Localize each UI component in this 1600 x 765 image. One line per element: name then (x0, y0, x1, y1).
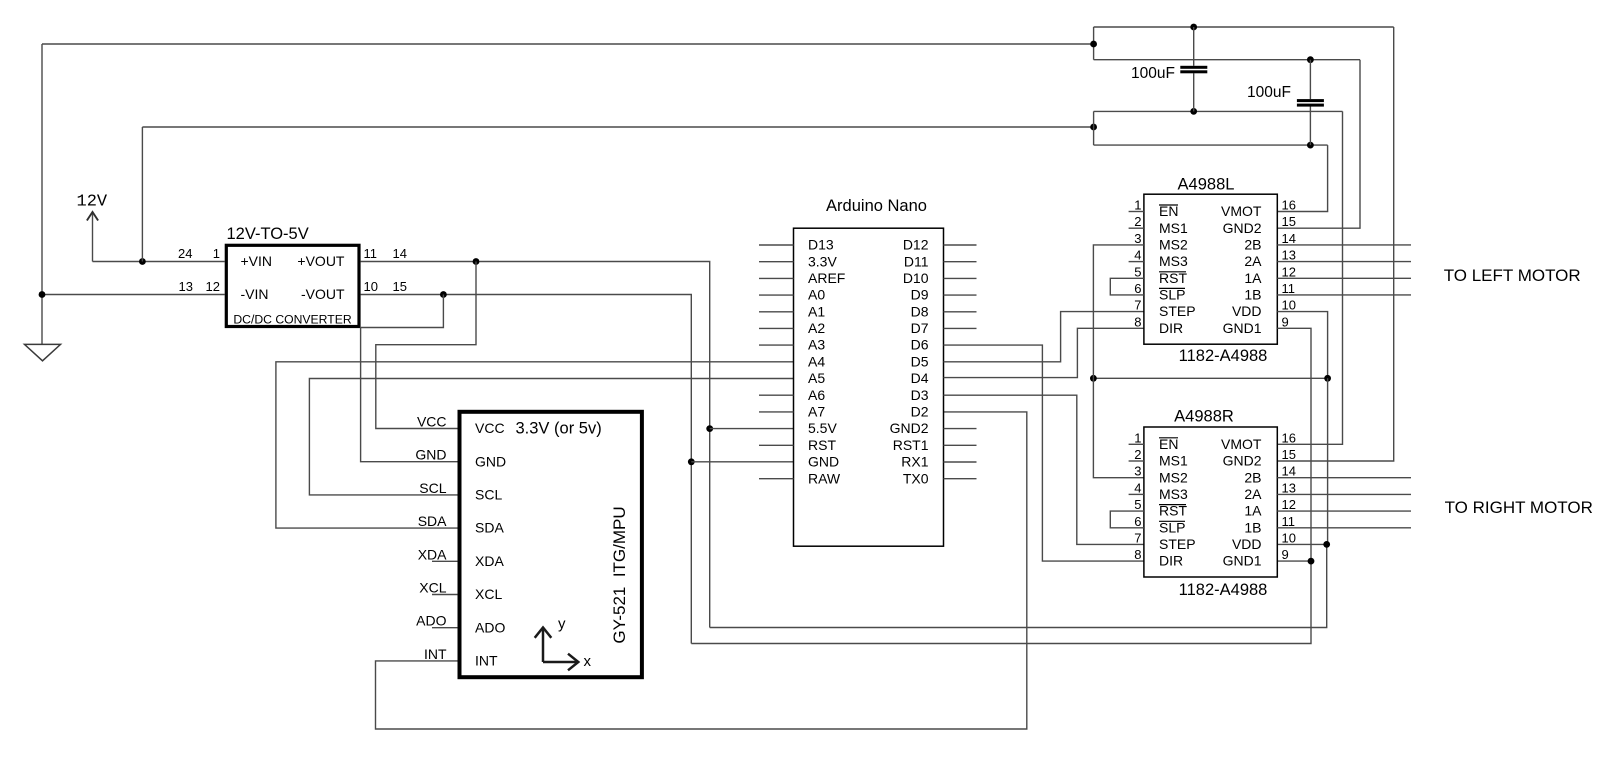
A4988R pin 1 stub (EN) (1129, 443, 1144, 445)
svg-text:INT: INT (475, 653, 498, 669)
Arduino pin stub RST1 (right) (944, 444, 977, 446)
svg-text:DIR: DIR (1159, 320, 1183, 336)
svg-text:2A: 2A (1244, 253, 1262, 269)
svg-text:GND: GND (415, 447, 446, 463)
svg-text:INT: INT (424, 646, 447, 662)
svg-text:TO LEFT MOTOR: TO LEFT MOTOR (1444, 266, 1581, 285)
overline for RST (A4988R) (1159, 504, 1186, 506)
svg-text:GND: GND (475, 453, 506, 469)
svg-text:1B: 1B (1244, 287, 1261, 303)
junction C1 top (1190, 24, 1197, 31)
svg-text:GND2: GND2 (1223, 453, 1262, 469)
svg-text:SDA: SDA (418, 513, 447, 529)
svg-text:3: 3 (1134, 231, 1141, 246)
wire motor output 1A (A4988R) (1277, 510, 1411, 512)
svg-text:4: 4 (1134, 248, 1141, 263)
svg-text:SCL: SCL (475, 487, 502, 503)
svg-text:VDD: VDD (1232, 536, 1262, 552)
wire 5V rail MS2 tie y=378.3 (1093, 377, 1327, 379)
svg-text:D11: D11 (904, 253, 929, 269)
MCU U2 Arduino Nano box (794, 228, 944, 546)
Arduino pin stub D12 (right) (944, 244, 977, 246)
svg-text:16: 16 (1282, 430, 1296, 445)
junction -VOUT / GY GND tap (440, 291, 447, 298)
svg-text:D6: D6 (911, 337, 929, 353)
svg-text:14: 14 (1282, 464, 1296, 479)
Arduino pin stub D13 (left) (759, 244, 794, 246)
junction +VOUT / GY VCC tap (473, 258, 480, 265)
junction C1 bottom (1190, 108, 1197, 115)
Arduino pin stub D7 (right) (944, 327, 977, 329)
svg-text:VMOT: VMOT (1221, 203, 1262, 219)
Arduino pin stub RX1 (right) (944, 461, 977, 463)
svg-text:6: 6 (1134, 514, 1141, 529)
junction -VIN / GND vertical (39, 291, 46, 298)
wire 5V bottom run to VDD (710, 544, 1327, 627)
svg-text:D7: D7 (911, 320, 929, 336)
wire GND upper branch y=27 (1094, 26, 1394, 28)
overline for EN (A4988L) (1159, 204, 1178, 206)
svg-text:2: 2 (1134, 447, 1141, 462)
GY-521 pin stub ADO (432, 627, 458, 629)
svg-text:GY-521 ITG/MPU: GY-521 ITG/MPU (610, 506, 629, 643)
svg-text:MS2: MS2 (1159, 237, 1188, 253)
svg-text:16: 16 (1282, 198, 1296, 213)
A4988L pin 4 stub (MS3) (1129, 261, 1144, 263)
svg-text:SCL: SCL (419, 480, 446, 496)
svg-text:MS3: MS3 (1159, 486, 1188, 502)
svg-text:TX0: TX0 (903, 470, 929, 486)
wire Arduino D5 to A4988L STEP (944, 312, 1144, 362)
wire VDD vertical to A4988R VDD (1277, 378, 1327, 544)
svg-text:12V-TO-5V: 12V-TO-5V (227, 225, 309, 243)
svg-text:D13: D13 (808, 237, 834, 253)
Arduino pin stub 3.3V (left) (759, 261, 794, 263)
wire 12V upper branch y=111.4 (1094, 110, 1343, 112)
wire A4988L VDD pin 10 to 5V rail (1277, 312, 1327, 379)
wire motor output 2A (A4988R) (1277, 493, 1411, 495)
wire GND to A4988L GND2 pin 15 (1277, 60, 1360, 229)
svg-text:XDA: XDA (475, 553, 504, 569)
Arduino pin stub D10 (right) (944, 277, 977, 279)
svg-text:D10: D10 (903, 270, 929, 286)
junction VDD rail right (1324, 375, 1331, 382)
wire SCL to Arduino A5 (309, 379, 793, 495)
wire GY-521 VCC feed (376, 262, 476, 429)
svg-text:A3: A3 (808, 337, 825, 353)
Arduino pin stub A1 (left) (759, 311, 794, 313)
svg-text:8: 8 (1134, 314, 1141, 329)
Arduino pin stub RAW (left) (759, 478, 794, 480)
junction A4988R VDD (1323, 541, 1330, 548)
svg-text:DIR: DIR (1159, 553, 1183, 569)
svg-text:GND1: GND1 (1223, 320, 1262, 336)
svg-text:11: 11 (1282, 281, 1296, 296)
overline for RST (A4988L) (1159, 271, 1186, 273)
A4988L pin 2 stub (MS1) (1129, 227, 1144, 229)
wire Arduino D3 to A4988R STEP (944, 395, 1144, 544)
svg-text:10: 10 (364, 279, 378, 294)
wire Arduino D4 to A4988L DIR (944, 328, 1144, 377)
svg-text:x: x (584, 653, 592, 670)
svg-text:2B: 2B (1244, 469, 1261, 485)
svg-text:15: 15 (1282, 214, 1296, 229)
wire RST-SLP tie loop (A4988L) (1110, 278, 1144, 295)
svg-text:1: 1 (1134, 430, 1141, 445)
svg-text:VCC: VCC (475, 420, 505, 436)
Arduino pin stub A3 (left) (759, 344, 794, 346)
wire GND riser at x=1093.6 (1093, 27, 1095, 60)
svg-text:2A: 2A (1244, 486, 1262, 502)
svg-text:11: 11 (364, 246, 378, 261)
wire GY-521 INT to Arduino D2 (376, 412, 1027, 729)
Arduino pin stub TX0 (right) (944, 478, 977, 480)
svg-text:2: 2 (1134, 214, 1141, 229)
capacitor C2 100uF (1297, 60, 1324, 145)
svg-text:7: 7 (1134, 298, 1141, 313)
svg-text:A4988R: A4988R (1174, 408, 1234, 426)
svg-text:24: 24 (178, 246, 192, 261)
svg-text:MS2: MS2 (1159, 469, 1188, 485)
svg-text:10: 10 (1282, 298, 1296, 313)
svg-text:3.3V (or 5v): 3.3V (or 5v) (516, 420, 602, 438)
GY-521 pin stub XDA (432, 560, 458, 562)
svg-text:D4: D4 (911, 370, 929, 386)
wire +VOUT 5V rail to Arduino 5.5V (361, 262, 710, 628)
wire GND lower branch y=59.7 (1094, 59, 1360, 61)
svg-text:DC/DC CONVERTER: DC/DC CONVERTER (233, 313, 351, 327)
svg-text:9: 9 (1282, 314, 1289, 329)
wire 5V to Arduino 5.5V pin (710, 428, 794, 430)
wire RST-SLP tie loop (A4988R) (1110, 511, 1144, 528)
ground symbol (25, 344, 61, 360)
svg-text:14: 14 (1282, 231, 1296, 246)
svg-text:-VIN: -VIN (241, 286, 269, 302)
wire motor output 1A (A4988L) (1277, 277, 1411, 279)
Arduino pin stub GND2 (right) (944, 428, 977, 430)
svg-text:GND1: GND1 (1223, 553, 1262, 569)
wire GND left vertical (41, 44, 43, 344)
driver IC A4988L box (1144, 194, 1277, 344)
svg-text:TO RIGHT MOTOR: TO RIGHT MOTOR (1445, 498, 1593, 517)
wire 12V to A4988L VMOT pin 16 (1277, 145, 1327, 211)
svg-text:12: 12 (1282, 497, 1296, 512)
svg-text:5: 5 (1134, 497, 1141, 512)
svg-text:2B: 2B (1244, 237, 1261, 253)
svg-text:y: y (558, 616, 566, 633)
axes symbol x-y (535, 628, 579, 671)
svg-text:Arduino Nano: Arduino Nano (826, 197, 927, 215)
overline for EN (A4988R) (1159, 437, 1178, 439)
svg-text:SDA: SDA (475, 520, 504, 536)
Arduino pin stub D11 (right) (944, 261, 977, 263)
svg-text:GND: GND (808, 454, 839, 470)
svg-text:9: 9 (1282, 547, 1289, 562)
junction 5V at Arduino 5.5V pin (706, 425, 713, 432)
svg-text:1: 1 (213, 246, 220, 261)
svg-text:12: 12 (206, 279, 220, 294)
wire 12V riser at x=1093.6 (1093, 111, 1095, 145)
svg-text:15: 15 (393, 279, 407, 294)
svg-text:+VOUT: +VOUT (297, 253, 345, 269)
GY-521 pin stub XCL (432, 594, 458, 596)
svg-text:7: 7 (1134, 530, 1141, 545)
svg-text:3: 3 (1134, 464, 1141, 479)
svg-text:1182-A4988: 1182-A4988 (1179, 347, 1268, 365)
svg-text:D3: D3 (911, 387, 929, 403)
svg-text:STEP: STEP (1159, 536, 1196, 552)
wire motor output 1B (A4988L) (1277, 294, 1411, 296)
wire 12V to A4988R VMOT pin 16 (1277, 111, 1342, 444)
svg-text:5: 5 (1134, 264, 1141, 279)
wire GND top rail (42, 43, 1094, 45)
wire SDA to Arduino A4 (276, 362, 794, 528)
svg-text:MS3: MS3 (1159, 253, 1188, 269)
wire 12V riser x=142.4 (141, 127, 143, 262)
svg-text:8: 8 (1134, 547, 1141, 562)
svg-text:1A: 1A (1244, 503, 1262, 519)
svg-text:STEP: STEP (1159, 303, 1196, 319)
Arduino pin stub A0 (left) (759, 294, 794, 296)
A4988R pin 2 stub (MS1) (1129, 460, 1144, 462)
svg-text:A6: A6 (808, 387, 825, 403)
svg-text:D8: D8 (911, 303, 929, 319)
svg-text:MS1: MS1 (1159, 453, 1188, 469)
wire MS2 L to MS2 R vertical (1093, 245, 1144, 478)
svg-text:VMOT: VMOT (1221, 436, 1262, 452)
svg-text:A2: A2 (808, 320, 825, 336)
svg-text:RST: RST (808, 437, 836, 453)
wire motor output 1B (A4988R) (1277, 527, 1411, 529)
junction A4988R GND1 (1308, 558, 1315, 565)
overline for SLP (A4988R) (1159, 520, 1185, 522)
svg-text:GND2: GND2 (890, 420, 929, 436)
DC/DC converter U1 12V-TO-5V box (226, 245, 359, 326)
wire A4988L GND1 pin 9 down (1277, 328, 1311, 561)
svg-text:13: 13 (1282, 248, 1296, 263)
svg-text:A4988L: A4988L (1178, 176, 1235, 194)
wire 12V lower branch y=145.1 (1094, 144, 1328, 146)
svg-text:ADO: ADO (416, 613, 446, 629)
Arduino pin stub RST (left) (759, 444, 794, 446)
Arduino pin stub AREF (left) (759, 277, 794, 279)
svg-text:13: 13 (1282, 480, 1296, 495)
svg-text:RAW: RAW (808, 470, 841, 486)
svg-text:D5: D5 (911, 353, 929, 369)
svg-text:13: 13 (179, 279, 193, 294)
sensor module U3 GY-521 box (460, 412, 642, 677)
junction 12V rail x=1093.6 (1090, 124, 1097, 131)
driver IC A4988R box (1144, 427, 1277, 577)
svg-text:5.5V: 5.5V (808, 420, 837, 436)
svg-text:11: 11 (1282, 514, 1296, 529)
svg-text:A0: A0 (808, 287, 825, 303)
svg-text:10: 10 (1282, 530, 1296, 545)
capacitor C1 100uF (1180, 27, 1207, 111)
svg-text:A5: A5 (808, 370, 825, 386)
junction GND rail x=1093.6 (1090, 41, 1097, 48)
wire 12V to +VIN (93, 261, 225, 263)
A4988R pin 4 stub (MS3) (1129, 493, 1144, 495)
svg-text:-VOUT: -VOUT (301, 286, 345, 302)
svg-text:MS1: MS1 (1159, 220, 1188, 236)
12V source arrow (92, 212, 94, 262)
svg-text:4: 4 (1134, 480, 1141, 495)
svg-text:1182-A4988: 1182-A4988 (1179, 581, 1268, 599)
svg-text:3.3V: 3.3V (808, 253, 837, 269)
svg-text:VDD: VDD (1232, 303, 1262, 319)
svg-text:XDA: XDA (418, 546, 447, 562)
svg-text:12: 12 (1282, 264, 1296, 279)
svg-text:1B: 1B (1244, 519, 1261, 535)
Arduino pin stub D9 (right) (944, 294, 977, 296)
A4988L pin 1 stub (EN) (1129, 211, 1144, 213)
junction MS2 rail left (1090, 375, 1097, 382)
svg-text:ADO: ADO (475, 619, 505, 635)
junction C2 bottom (1307, 142, 1314, 149)
overline for SLP (A4988L) (1159, 287, 1185, 289)
svg-text:VCC: VCC (417, 414, 447, 430)
wire GY-521 GND feed (361, 295, 458, 462)
svg-text:1A: 1A (1244, 270, 1262, 286)
svg-text:100uF: 100uF (1247, 84, 1291, 101)
svg-text:14: 14 (393, 246, 407, 261)
wire -VOUT GND to Arduino GND (361, 295, 692, 644)
Arduino pin stub D8 (right) (944, 311, 977, 313)
wire Arduino D6 to A4988R DIR (944, 345, 1144, 561)
wire motor output 2A (A4988L) (1277, 261, 1411, 263)
svg-text:XCL: XCL (475, 586, 502, 602)
Arduino pin stub A7 (left) (759, 411, 794, 413)
svg-text:D9: D9 (911, 287, 929, 303)
svg-text:RX1: RX1 (901, 454, 928, 470)
svg-text:15: 15 (1282, 447, 1296, 462)
Arduino pin stub A2 (left) (759, 327, 794, 329)
junction 12V feed (139, 258, 146, 265)
wire motor output 2B (A4988R) (1277, 477, 1411, 479)
junction GND at Arduino GND pin (688, 458, 695, 465)
svg-text:D12: D12 (903, 237, 929, 253)
svg-text:100uF: 100uF (1131, 65, 1175, 82)
wire GND bottom run to GND1 (691, 561, 1311, 643)
svg-text:AREF: AREF (808, 270, 845, 286)
svg-text:XCL: XCL (419, 580, 446, 596)
junction C2 top (1307, 56, 1314, 63)
wire GND to Arduino GND pin (691, 461, 793, 463)
wire motor output 2B (A4988L) (1277, 244, 1411, 246)
svg-text:A7: A7 (808, 404, 825, 420)
svg-text:1: 1 (1134, 198, 1141, 213)
svg-text:12V: 12V (77, 193, 108, 212)
svg-text:6: 6 (1134, 281, 1141, 296)
wire 12V rail y=127 (142, 126, 1093, 128)
Arduino pin stub A6 (left) (759, 394, 794, 396)
svg-text:+VIN: +VIN (241, 253, 273, 269)
wire -VIN from ground rail (42, 294, 225, 296)
svg-text:D2: D2 (911, 404, 929, 420)
svg-text:GND2: GND2 (1223, 220, 1262, 236)
wire GND to A4988R GND2 pin 15 (1277, 27, 1393, 461)
svg-text:A4: A4 (808, 353, 825, 369)
svg-text:RST1: RST1 (893, 437, 929, 453)
svg-text:A1: A1 (808, 303, 825, 319)
